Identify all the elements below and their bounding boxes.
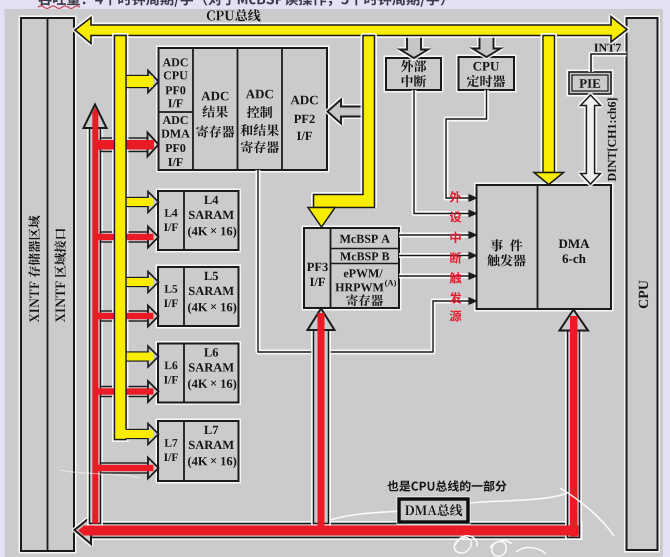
note: also part of CPU bus [387, 480, 506, 491]
red vertical pipe to DMA (right) [560, 310, 589, 538]
ePWM HRPWM registers label [335, 269, 396, 306]
wire McBSP A to event trigger [399, 232, 477, 238]
DMA 6-ch box outer [477, 185, 612, 309]
XINTF interface label [54, 229, 66, 322]
red branch arrowhead row 4 [148, 381, 159, 402]
gray arrow CPU-bus to ADC PF2 [328, 100, 364, 124]
red core vertical to PF3 [318, 313, 325, 530]
ADC block divider x237 [237, 48, 239, 170]
red branch arrowhead row 2 [148, 227, 159, 248]
INT7 line PIE to CPU [591, 54, 627, 72]
red branch pipe row 1 (ADC DMA) [101, 138, 149, 152]
CPU timer box [459, 57, 515, 90]
yellow vertical bus to DMA [534, 36, 564, 185]
red branch arrowhead row 1 (ADC DMA) [148, 133, 159, 157]
ADC block divider x193 [192, 48, 194, 170]
DMA bus box [399, 499, 468, 522]
ADC control and result registers label [241, 90, 280, 154]
DINT[CH1:ch6] label [608, 98, 618, 181]
red core vertical to DMA [570, 316, 578, 537]
red core branch row 4 [97, 388, 154, 394]
CPU bus label [207, 9, 261, 21]
red branch pipe row 5 [101, 463, 149, 473]
watermark squiggles [60, 470, 614, 556]
red branch arrowhead row 5 [148, 458, 159, 479]
yellow branch arrow row 4 [126, 346, 159, 367]
INT7 label [594, 44, 621, 52]
yellow branch arrow row 5 [126, 424, 159, 445]
red branch arrowhead row 3 [148, 306, 159, 327]
L6 SARAM block [158, 344, 239, 403]
red core left vertical bus [92, 107, 98, 524]
McBSP B label [340, 252, 389, 260]
red branch pipe row 3 [101, 311, 149, 321]
McBSP B/ePWM divider [331, 263, 400, 265]
ADC block divider x282 [281, 48, 283, 170]
DINT double-headed arrow PIE-DMA [581, 95, 601, 184]
wire CPU-timer to event trigger [446, 90, 487, 201]
red vertical pipe left (DMA access bus) [84, 105, 107, 524]
red core branch row 3 [97, 313, 154, 319]
yellow branch arrow row 3 [126, 272, 159, 293]
red core branch row 5 [97, 465, 154, 471]
wire ePWM to event trigger [399, 273, 477, 279]
ADC PF2 I/F label [291, 96, 318, 140]
McBSP A label [340, 235, 390, 243]
yellow branch arrow row 1 (ADC CPU) [126, 71, 159, 93]
red branch pipe row 4 [101, 387, 149, 397]
red core branch row 1 (ADC DMA) [97, 140, 154, 150]
red branch pipe row 2 [101, 232, 149, 242]
yellow branch arrow row 2 [126, 192, 159, 213]
yellow CPU bus (horizontal double arrow) [75, 17, 627, 44]
ADC result registers label [196, 92, 234, 138]
XINTF region box [21, 18, 74, 551]
caption text (cropped at top edge) [38, 0, 445, 8]
L7 SARAM block [158, 421, 239, 481]
red DMA bus pipe (bottom) [75, 517, 581, 545]
XINTF memory area label [28, 216, 40, 323]
ADC CPU/DMA divider [159, 111, 194, 113]
DMA 6-ch label [559, 239, 590, 263]
gray arrow CPU-bus to CPU timer [473, 34, 501, 57]
DMA box divider [537, 185, 539, 309]
ADC DMA PF0 I/F label [161, 116, 189, 166]
McBSP A/B divider [331, 248, 400, 250]
red core DMA bus bottom [78, 526, 579, 536]
L4 SARAM block [158, 191, 239, 250]
yellow L bus to PF3 [308, 36, 375, 228]
yellow vertical bus left (memory access) [115, 36, 127, 440]
PF3 I/F label [307, 263, 328, 286]
PF3 group divider [330, 228, 332, 308]
red core branch row 2 [97, 234, 154, 240]
CPU box [627, 18, 658, 550]
event trigger label [487, 239, 525, 266]
wire external-interrupt to event trigger [414, 90, 477, 217]
PF3 group outer box [304, 228, 399, 308]
ADC block outer box [159, 48, 328, 170]
red vertical pipe to PF3 (middle) [308, 309, 335, 524]
gray arrow CPU-bus to external interrupt [400, 34, 428, 58]
yellow vertical bus left overlay [115, 36, 128, 440]
wire ADC block to event trigger [258, 170, 477, 352]
L5 SARAM block [158, 267, 239, 326]
ADC CPU PF0 I/F label [163, 58, 188, 107]
peripheral interrupt trigger source label [450, 191, 462, 322]
PIE box [569, 72, 611, 94]
external interrupt box [386, 58, 441, 90]
wire McBSP B to event trigger [399, 252, 477, 258]
